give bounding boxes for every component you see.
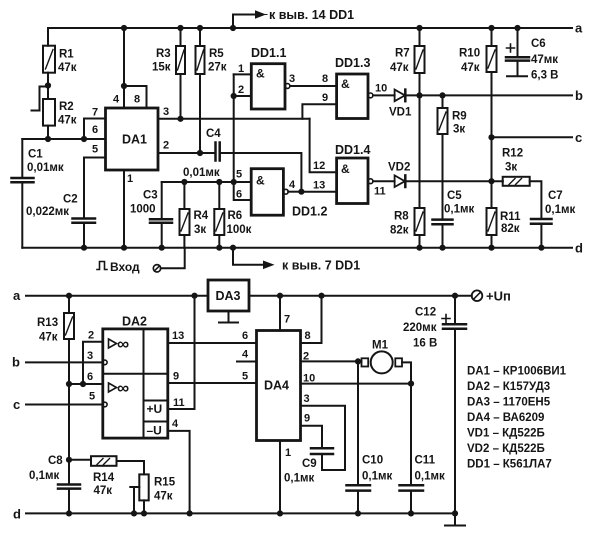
junction dot C2/wire d xyxy=(81,245,87,251)
wire R10 down through b to c and node xyxy=(491,72,493,181)
svg-text:13: 13 xyxy=(313,180,325,192)
resistor R8 xyxy=(415,208,425,235)
svg-text:6: 6 xyxy=(242,330,248,342)
svg-text:0,1мк: 0,1мк xyxy=(415,471,445,483)
wire DA2 pin 9 to DA4 pin 5 xyxy=(168,382,257,384)
svg-text:47мк: 47мк xyxy=(531,54,558,66)
svg-text:7: 7 xyxy=(92,107,98,119)
svg-text:4: 4 xyxy=(172,418,179,430)
wire VD2 to R12/R11 node xyxy=(405,180,502,182)
svg-text:5: 5 xyxy=(242,371,248,383)
svg-text:DD1 – К561ЛА7: DD1 – К561ЛА7 xyxy=(467,459,552,471)
wire DA2 pin 13 to DA4 pin 6 xyxy=(168,342,257,344)
svg-text:C8: C8 xyxy=(48,455,63,467)
diode VD1 xyxy=(395,90,405,102)
svg-text:R11: R11 xyxy=(500,211,521,223)
wire DA2 pin 11 (+U) to rail a xyxy=(168,296,195,409)
wire C1 bottom xyxy=(21,182,23,248)
svg-text:R4: R4 xyxy=(194,210,209,222)
svg-text:10: 10 xyxy=(303,373,315,385)
svg-text:6: 6 xyxy=(87,371,93,383)
resistor R10 xyxy=(491,28,493,46)
resistor R15 xyxy=(139,474,148,500)
resistor R13 xyxy=(66,293,72,299)
svg-text:R8: R8 xyxy=(394,211,409,223)
wire R14 to R15 xyxy=(117,461,145,474)
svg-text:2: 2 xyxy=(303,351,309,363)
svg-text:7: 7 xyxy=(284,314,290,326)
svg-text:0,1мк: 0,1мк xyxy=(29,470,59,482)
resistor R14 xyxy=(69,459,91,461)
wire DA4 pin 3 to C9 bottom xyxy=(301,406,346,470)
svg-text:R5: R5 xyxy=(209,48,224,60)
wire DA4 pin 1 to rail d xyxy=(279,441,281,514)
svg-text:9: 9 xyxy=(304,413,310,425)
svg-text:R9: R9 xyxy=(452,111,467,123)
svg-text:8: 8 xyxy=(305,330,311,342)
wire DD1.2 pin 6 jog xyxy=(234,182,252,200)
svg-text:2: 2 xyxy=(238,84,244,96)
svg-text:8: 8 xyxy=(134,94,140,106)
svg-text:3: 3 xyxy=(289,73,295,85)
svg-text:47к: 47к xyxy=(58,62,77,74)
svg-text:9: 9 xyxy=(322,92,328,104)
svg-text:DD1.1: DD1.1 xyxy=(251,46,286,60)
wire DA1 pin 3 net xyxy=(158,118,310,120)
svg-text:0,1мк: 0,1мк xyxy=(284,473,314,485)
svg-text:к выв. 14 DD1: к выв. 14 DD1 xyxy=(269,8,354,22)
wire DA4 pin 2 to M1 xyxy=(301,360,362,362)
wire DA1 pin 7 jog xyxy=(84,119,106,140)
svg-text:0,01мк: 0,01мк xyxy=(27,162,64,174)
junction dot R2/pin6 wire xyxy=(45,136,51,142)
svg-text:R6: R6 xyxy=(228,210,243,222)
DD1.4 output pin 11 xyxy=(368,179,373,184)
svg-text:27к: 27к xyxy=(208,62,227,74)
svg-text:82к: 82к xyxy=(390,225,409,237)
svg-text:∞: ∞ xyxy=(117,335,129,354)
input terminal Вход xyxy=(97,262,107,270)
terminal +Un xyxy=(472,290,483,301)
svg-text:47к: 47к xyxy=(39,332,58,344)
svg-text:R14: R14 xyxy=(93,472,115,484)
svg-text:5: 5 xyxy=(89,391,95,403)
svg-text:d: d xyxy=(575,241,583,256)
svg-text:C7: C7 xyxy=(548,190,563,202)
svg-text:3к: 3к xyxy=(505,162,517,174)
svg-text:VD2: VD2 xyxy=(388,162,410,174)
svg-text:11: 11 xyxy=(374,186,386,198)
svg-text:&: & xyxy=(256,67,265,81)
svg-text:b: b xyxy=(12,355,20,370)
resistor R11 xyxy=(491,181,493,208)
svg-text:к выв. 7 DD1: к выв. 7 DD1 xyxy=(282,259,360,273)
resistor R2 xyxy=(43,99,55,126)
resistor R4 xyxy=(183,182,185,209)
svg-text:16 В: 16 В xyxy=(413,338,437,350)
svg-text:∞: ∞ xyxy=(117,379,129,398)
svg-text:12: 12 xyxy=(313,160,325,172)
svg-text:DA2: DA2 xyxy=(122,315,147,329)
resistor R1 xyxy=(43,46,55,73)
svg-text:DD1.4: DD1.4 xyxy=(335,143,370,157)
op-amp symbol 2 xyxy=(109,383,117,392)
svg-text:R3: R3 xyxy=(156,48,171,60)
svg-text:c: c xyxy=(575,130,582,145)
svg-text:5: 5 xyxy=(92,144,98,156)
capacitor C6 (electrolytic) xyxy=(517,28,519,57)
svg-text:3: 3 xyxy=(87,350,93,362)
capacitor C1 xyxy=(12,178,34,182)
wire C1 top xyxy=(21,139,23,178)
capacitor C4 xyxy=(216,143,220,161)
svg-text:47к: 47к xyxy=(154,491,173,503)
wire DA1 pin 5 xyxy=(84,158,106,219)
svg-text:DA1: DA1 xyxy=(122,133,147,147)
resistor R6 xyxy=(218,182,220,209)
svg-text:3к: 3к xyxy=(194,224,206,236)
junction dot (arrow/rail a) xyxy=(230,25,236,31)
svg-text:6: 6 xyxy=(92,124,98,136)
svg-text:VD1: VD1 xyxy=(389,107,412,119)
svg-text:&: & xyxy=(341,162,350,176)
DA2 pin 5 input circle xyxy=(103,402,108,407)
svg-text:47к: 47к xyxy=(58,115,77,127)
capacitor C8 xyxy=(66,457,72,463)
capacitor C7 xyxy=(531,219,552,224)
DD1.3 output pin 10 xyxy=(368,93,373,98)
wire DA2 pin 6 xyxy=(69,383,103,385)
wire DD1.1 inputs vertical to node xyxy=(233,74,235,182)
svg-text:1: 1 xyxy=(238,63,244,75)
svg-text:2: 2 xyxy=(88,330,94,342)
capacitor C11 xyxy=(410,384,412,486)
wire R1 top xyxy=(47,28,49,46)
resistor R3 xyxy=(180,28,182,46)
wire M1 right to pin 10 xyxy=(402,362,411,383)
svg-text:b: b xyxy=(575,88,583,103)
svg-text:15к: 15к xyxy=(152,62,171,74)
voltage regulator DA3 xyxy=(208,280,249,311)
svg-text:47к: 47к xyxy=(390,62,409,74)
svg-text:DA3 – 1170ЕН5: DA3 – 1170ЕН5 xyxy=(467,397,551,409)
svg-text:0,01мк: 0,01мк xyxy=(183,167,220,179)
ground below C6 xyxy=(507,61,527,77)
capacitor C2 xyxy=(73,219,96,223)
svg-text:C9: C9 xyxy=(302,458,317,470)
svg-text:DA4 – ВА6209: DA4 – ВА6209 xyxy=(467,412,544,424)
svg-text:DA3: DA3 xyxy=(216,289,241,303)
svg-text:C4: C4 xyxy=(206,128,221,140)
resistor R9 xyxy=(442,95,444,108)
wire C4 to DD1.2 output xyxy=(220,153,302,192)
svg-text:DD1.3: DD1.3 xyxy=(335,56,370,70)
wire DD1.3 pin 9 xyxy=(302,104,336,119)
svg-text:C11: C11 xyxy=(415,455,436,467)
svg-text:DA4: DA4 xyxy=(264,379,289,393)
junction dot R1/R2 xyxy=(45,82,51,88)
svg-text:9: 9 xyxy=(173,371,179,383)
svg-text:R15: R15 xyxy=(154,477,176,489)
svg-text:R2: R2 xyxy=(59,101,74,113)
DD1.1 output pin 3 xyxy=(285,84,290,89)
wire R7/R8 vertical xyxy=(419,95,421,208)
wire DA4 pin 9 to C9 top xyxy=(301,426,323,449)
svg-text:+Uп: +Uп xyxy=(486,289,511,304)
resistor R12 xyxy=(502,180,504,182)
wire b (top, from VD1) xyxy=(405,94,572,96)
wire arrow to pin 7 DD1 xyxy=(233,248,263,265)
svg-text:6,3 В: 6,3 В xyxy=(531,70,559,82)
svg-text:&: & xyxy=(341,77,350,91)
svg-text:R7: R7 xyxy=(395,48,410,60)
wire R1-R2 xyxy=(47,73,49,99)
svg-text:3: 3 xyxy=(304,393,310,405)
svg-text:C10: C10 xyxy=(362,455,383,467)
DA4 pin 4 stub xyxy=(237,361,257,363)
ground below DA3 xyxy=(219,311,238,323)
svg-text:4: 4 xyxy=(289,179,296,191)
DD1.2 output pin 4 xyxy=(283,189,288,194)
resistor R7 xyxy=(419,28,421,46)
wire R2 bottom to pin6 wire xyxy=(47,126,49,139)
svg-text:5: 5 xyxy=(236,169,242,181)
svg-text:0,1мк: 0,1мк xyxy=(545,204,575,216)
op-amp symbol 1 xyxy=(109,339,117,348)
wire DA2 pin 4 (-U) to rail d xyxy=(168,431,190,514)
wire DA1 pins 4,8 xyxy=(124,28,147,108)
svg-text:C6: C6 xyxy=(531,38,546,50)
svg-text:1: 1 xyxy=(127,173,133,185)
wire rail c (top) xyxy=(492,136,573,138)
svg-text:0,022мк: 0,022мк xyxy=(26,206,69,218)
wire DA1 pin 2 xyxy=(158,152,216,154)
capacitor C3 xyxy=(161,182,163,219)
capacitor C10 xyxy=(357,361,359,485)
capacitor C12 (electrolytic) xyxy=(452,293,458,299)
wire DD1.4 pin 13 xyxy=(301,191,336,193)
svg-text:1000: 1000 xyxy=(130,204,156,216)
trimmer arm of R15 xyxy=(130,487,139,513)
svg-text:3к: 3к xyxy=(453,124,465,136)
svg-text:c: c xyxy=(13,397,20,412)
svg-text:d: d xyxy=(13,507,21,522)
svg-text:11: 11 xyxy=(173,397,185,409)
svg-text:220мк: 220мк xyxy=(403,322,437,334)
svg-text:6: 6 xyxy=(236,189,242,201)
wire DD1.4 pin 12 xyxy=(310,119,337,172)
logic gate DD1.2 xyxy=(251,169,283,216)
svg-text:&: & xyxy=(256,174,265,188)
svg-text:R12: R12 xyxy=(502,148,523,160)
capacitor C5 xyxy=(433,220,453,225)
wire rail a (top) xyxy=(48,27,572,29)
wire C2 bottom xyxy=(83,223,85,248)
wire DD1.1 pin 2 xyxy=(234,95,252,97)
resistor R5 xyxy=(199,28,201,46)
svg-text:+U: +U xyxy=(147,402,163,416)
svg-text:8: 8 xyxy=(322,73,328,85)
motor driver DA4 xyxy=(257,331,301,441)
svg-text:VD1 – КД522Б: VD1 – КД522Б xyxy=(467,428,545,440)
svg-text:47к: 47к xyxy=(461,62,480,74)
svg-text:13: 13 xyxy=(172,330,184,342)
svg-text:4: 4 xyxy=(113,94,120,106)
DA2 pin 3 input circle xyxy=(103,360,108,365)
wire DA4 pin 10 xyxy=(301,383,412,385)
op-amp timer DA1 xyxy=(106,108,159,170)
svg-text:C5: C5 xyxy=(447,190,462,202)
wire DA4 pin 8 to rail a xyxy=(301,296,322,343)
svg-text:C1: C1 xyxy=(28,149,43,161)
wire DA1 pin 6 xyxy=(22,138,105,140)
junction dot pin7/pin6 xyxy=(81,136,87,142)
svg-text:Вход: Вход xyxy=(110,260,140,274)
svg-text:10: 10 xyxy=(375,83,387,95)
svg-text:0,1мк: 0,1мк xyxy=(362,471,392,483)
svg-text:C3: C3 xyxy=(143,190,158,202)
svg-text:R10: R10 xyxy=(459,48,480,60)
svg-text:3: 3 xyxy=(163,106,169,118)
svg-text:a: a xyxy=(575,21,583,36)
svg-text:C12: C12 xyxy=(415,307,436,319)
capacitor C9 xyxy=(311,448,333,454)
svg-text:a: a xyxy=(13,288,21,303)
diode VD2 xyxy=(395,175,405,187)
svg-text:4: 4 xyxy=(242,349,249,361)
svg-text:C2: C2 xyxy=(63,194,78,206)
wire arrow to pin 14 DD1 xyxy=(233,15,256,29)
ground at rail d end xyxy=(452,510,458,516)
svg-text:82к: 82к xyxy=(501,223,520,235)
wire DA2 pin 2 jog xyxy=(83,342,103,384)
svg-text:47к: 47к xyxy=(94,485,113,497)
wire DD1.1 pin 1 xyxy=(234,73,252,75)
wire DD1.2 pin 5 (node wire) xyxy=(162,181,252,183)
svg-text:R1: R1 xyxy=(59,49,74,61)
wire DA4 pin 7 to rail a xyxy=(279,296,281,331)
svg-text:R13: R13 xyxy=(37,317,58,329)
svg-text:2: 2 xyxy=(163,140,169,152)
wire DA1 pin 1 xyxy=(123,170,125,248)
svg-text:DA2 – К157УД3: DA2 – К157УД3 xyxy=(467,381,550,393)
svg-text:DA1 – КР1006ВИ1: DA1 – КР1006ВИ1 xyxy=(467,366,567,378)
svg-text:–U: –U xyxy=(147,424,162,438)
svg-text:100к: 100к xyxy=(227,224,252,236)
svg-text:1: 1 xyxy=(285,447,291,459)
svg-text:VD2 – КД522Б: VD2 – КД522Б xyxy=(467,443,545,455)
svg-text:DD1.2: DD1.2 xyxy=(292,205,327,219)
wire rail d (top) xyxy=(22,247,572,249)
svg-text:M1: M1 xyxy=(372,340,389,352)
trimmer arm of R2 xyxy=(32,87,49,111)
svg-text:0,1мк: 0,1мк xyxy=(444,204,474,216)
